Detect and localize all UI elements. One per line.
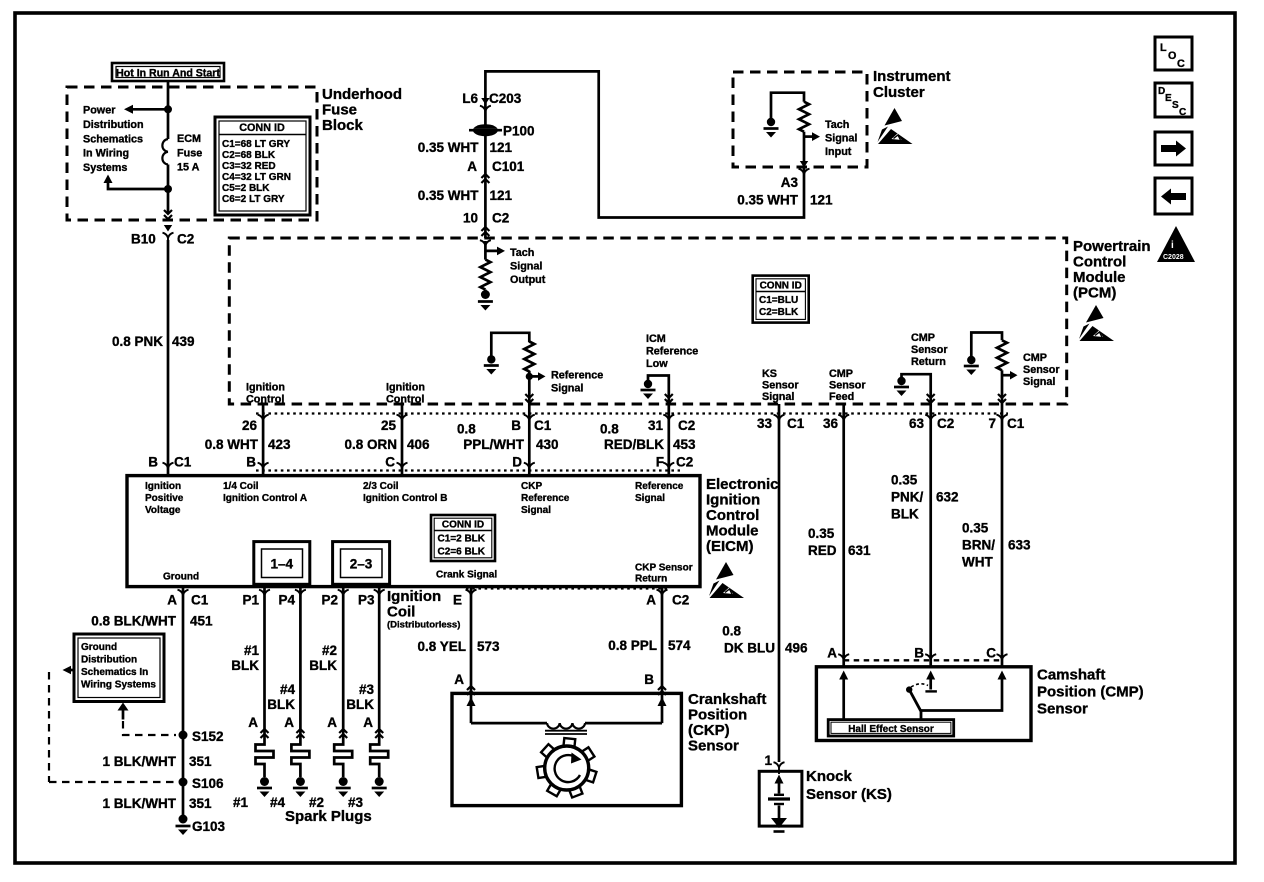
svg-text:WHT: WHT (962, 555, 993, 570)
label CKP Sensor Return (635, 563, 693, 585)
wire P3 to plug 3 (378, 587, 381, 742)
knock sensor element (768, 775, 790, 832)
label Reference Signal (551, 370, 603, 395)
connector fork at EICM pin B (163, 463, 174, 475)
svg-text:#2: #2 (322, 643, 337, 658)
label 0.35 WHT 121 lower (418, 188, 513, 203)
svg-text:CONN ID: CONN ID (239, 122, 285, 134)
arrow left of ground distribution box (63, 666, 76, 674)
label pin B C1 at EICM (148, 455, 191, 470)
svg-text:Ground: Ground (163, 572, 199, 583)
svg-text:CONN ID: CONN ID (442, 520, 484, 531)
label Power Distribution Schematics In Wiring Systems (83, 105, 144, 175)
svg-text:Ignition: Ignition (387, 588, 441, 605)
label ICM Reference Low (646, 333, 698, 370)
label CMP Sensor Signal (1023, 352, 1060, 388)
svg-text:(EICM): (EICM) (706, 538, 754, 555)
inline connector B10 C2 (163, 225, 174, 245)
svg-text:0.8 PPL: 0.8 PPL (608, 638, 657, 653)
svg-text:0.35: 0.35 (962, 521, 989, 536)
svg-text:Fuse: Fuse (177, 147, 202, 159)
svg-text:Reference: Reference (551, 370, 603, 382)
arrowheads into CKP box (467, 697, 476, 706)
label 0.35 RED 631 (808, 526, 871, 558)
ESD symbol cluster (878, 108, 913, 144)
Hot In Run And Start label box (112, 63, 224, 81)
svg-text:Tach: Tach (510, 247, 534, 259)
icon box left-arrow (1155, 178, 1192, 214)
svg-text:121: 121 (490, 188, 513, 203)
svg-text:453: 453 (673, 437, 696, 452)
svg-text:Reference: Reference (635, 481, 684, 492)
svg-text:632: 632 (936, 490, 959, 505)
svg-text:C1=BLU: C1=BLU (759, 295, 798, 306)
svg-text:Ignition: Ignition (706, 492, 760, 509)
svg-text:Return: Return (635, 574, 667, 585)
svg-text:Signal: Signal (762, 391, 794, 403)
dashed link to S106 (49, 672, 176, 782)
label Ignition Control right (386, 382, 425, 406)
tach signal input node arrow (804, 132, 820, 141)
svg-text:A: A (167, 593, 177, 608)
ESD symbol PCM (1079, 305, 1114, 341)
exit chevron CMP sensor signal (998, 394, 1006, 403)
wire 439 PNK vertical to EICM (167, 240, 170, 476)
coil 2-3 box (333, 542, 390, 585)
svg-text:Control: Control (246, 394, 284, 406)
svg-text:451: 451 (190, 614, 213, 629)
svg-text:Coil: Coil (387, 604, 415, 621)
svg-text:BLK: BLK (267, 697, 295, 712)
svg-text:Underhood: Underhood (322, 86, 402, 103)
label 0.8 BLK/WHT 451 (91, 614, 213, 629)
svg-text:F: F (656, 455, 664, 470)
svg-text:Module: Module (706, 523, 759, 540)
label Knock Sensor (KS) (806, 768, 892, 803)
svg-text:15 A: 15 A (177, 162, 200, 174)
wire 574 PPL CKP return (661, 587, 664, 724)
svg-text:BRN/: BRN/ (962, 538, 995, 553)
svg-text:C2: C2 (177, 232, 194, 247)
label 1 BLK/WHT 351 lower (103, 796, 213, 811)
svg-text:Block: Block (322, 117, 364, 134)
connector forks EICM row (258, 463, 269, 475)
ground CMP sensor signal (964, 356, 979, 375)
Instrument Cluster dashed box (733, 72, 867, 167)
svg-text:633: 633 (1008, 538, 1031, 553)
svg-text:0.8 WHT: 0.8 WHT (205, 437, 259, 452)
svg-text:Wiring Systems: Wiring Systems (81, 680, 156, 691)
svg-text:BLK: BLK (346, 697, 374, 712)
svg-text:Crankshaft: Crankshaft (688, 691, 766, 708)
svg-text:PNK/: PNK/ (891, 490, 924, 505)
spark plug 1 (256, 741, 274, 797)
svg-text:In Wiring: In Wiring (83, 148, 129, 160)
svg-text:1/4 Coil: 1/4 Coil (223, 481, 259, 492)
svg-text:351: 351 (189, 754, 212, 769)
svg-text:C5=2 BLK: C5=2 BLK (222, 183, 270, 194)
wire P4 to plug 4 (299, 587, 302, 742)
svg-text:Signal: Signal (510, 261, 542, 273)
spark plug 3 (370, 741, 388, 797)
svg-text:0.35 WHT: 0.35 WHT (737, 193, 799, 208)
svg-text:A: A (827, 646, 837, 661)
svg-text:CKP Sensor: CKP Sensor (635, 563, 693, 574)
svg-text:C203: C203 (489, 91, 522, 106)
svg-text:Ignition: Ignition (145, 481, 181, 492)
svg-text:L: L (1160, 42, 1167, 54)
svg-text:CMP: CMP (1023, 352, 1047, 364)
svg-text:#1: #1 (244, 643, 260, 658)
CMP internal wire B with switch (906, 671, 937, 720)
svg-text:B: B (148, 455, 158, 470)
svg-text:Control: Control (386, 394, 424, 406)
svg-text:CONN ID: CONN ID (760, 281, 802, 292)
wire 406 ORN pin25 to EICM (401, 404, 404, 476)
svg-text:C4=32 LT GRN: C4=32 LT GRN (222, 172, 291, 183)
label Powertrain Control Module (PCM) (1073, 238, 1151, 302)
Underhood Fuse Block dashed box (67, 87, 317, 220)
grommet P100 (469, 124, 502, 136)
svg-text:A: A (646, 593, 656, 608)
connector chevron into PCM (481, 227, 489, 236)
svg-text:A3: A3 (781, 175, 799, 190)
label 0.8 WHT 423 (205, 437, 291, 452)
svg-text:BLK: BLK (891, 507, 919, 522)
label 1 BLK/WHT 351 upper (103, 754, 213, 769)
svg-text:A: A (454, 672, 464, 687)
wire fuse feed vertical (167, 81, 170, 213)
svg-text:Low: Low (646, 358, 668, 370)
svg-text:423: 423 (268, 437, 291, 452)
CONN ID table EICM (431, 515, 495, 561)
svg-text:Sensor: Sensor (688, 738, 739, 755)
label B10 C2 (131, 232, 194, 247)
svg-text:7: 7 (988, 416, 996, 431)
label Camshaft Position (CMP) Sensor (1037, 667, 1144, 718)
label 0.35 WHT 121 cluster (737, 193, 833, 208)
svg-text:B: B (644, 672, 654, 687)
svg-text:P2: P2 (321, 593, 338, 608)
icon box DESC (1155, 83, 1192, 118)
svg-text:(Distributorless): (Distributorless) (387, 620, 460, 631)
svg-text:#4: #4 (280, 682, 296, 697)
svg-text:P100: P100 (503, 124, 535, 139)
icon box LOC (1155, 37, 1192, 70)
resistor tach output (480, 260, 490, 290)
connector forks PCM row (258, 415, 269, 427)
svg-text:0.8 BLK/WHT: 0.8 BLK/WHT (91, 614, 177, 629)
reference signal node arrow (526, 372, 546, 381)
wire P1 to plug 1 (263, 587, 266, 742)
svg-text:B: B (246, 455, 256, 470)
resistor CMP sensor signal (997, 340, 1007, 370)
svg-text:496: 496 (785, 641, 808, 656)
CONN ID table PCM (753, 276, 809, 323)
svg-text:Schematics In: Schematics In (81, 667, 148, 678)
svg-text:Ground: Ground (81, 642, 117, 653)
exit chevron ICM reference low (665, 394, 673, 403)
wire 496 DK BLU knock sensor (778, 404, 781, 762)
CMP internal wire A (839, 671, 848, 720)
wire resistor to A3 (803, 132, 806, 167)
svg-text:C6=2 LT GRY: C6=2 LT GRY (222, 194, 285, 205)
wire 451/351 BLKWHT ground run (182, 587, 185, 819)
label pin A C1 (167, 593, 208, 608)
svg-text:C1=2 BLK: C1=2 BLK (438, 534, 486, 545)
CMP sensor box (816, 667, 1031, 741)
svg-text:A: A (284, 715, 294, 730)
connector fork tach entering PCM (480, 240, 491, 252)
label #4 BLK (267, 682, 295, 712)
svg-text:C2028: C2028 (1163, 254, 1184, 261)
svg-text:Signal: Signal (551, 383, 583, 395)
ground tach output (478, 290, 493, 311)
svg-text:574: 574 (668, 638, 691, 653)
resistor reference signal (524, 342, 534, 372)
svg-text:Fuse: Fuse (322, 102, 357, 119)
svg-text:P1: P1 (242, 593, 259, 608)
label 0.8 RED/BLK 453 (600, 422, 696, 453)
wire cluster ground to resistor (771, 93, 804, 119)
wire 633 BRNWHT CMP signal (1001, 404, 1004, 666)
svg-text:C1: C1 (174, 455, 192, 470)
svg-text:Positive: Positive (145, 493, 184, 504)
PCM dashed box (229, 238, 1066, 404)
svg-text:C1=68 LT GRY: C1=68 LT GRY (222, 139, 290, 150)
splice S152 (179, 729, 224, 744)
svg-text:C2: C2 (672, 593, 689, 608)
CMP sensor signal node arrow (1002, 371, 1018, 380)
label 0.35 BRN/WHT 633 (962, 521, 1031, 570)
label L6 C203 (462, 91, 522, 106)
svg-text:C2=68 BLK: C2=68 BLK (222, 150, 276, 161)
label #3 BLK (346, 682, 374, 712)
svg-text:Control: Control (1073, 254, 1126, 271)
svg-text:i: i (1171, 240, 1174, 251)
svg-text:D: D (512, 455, 522, 470)
icon box right-arrow (1155, 132, 1192, 165)
svg-text:Sensor: Sensor (1023, 364, 1060, 376)
svg-text:C: C (1179, 107, 1186, 118)
label Electronic Ignition Control Module (EICM) (706, 476, 779, 555)
wire branch with up arrow (108, 183, 168, 189)
svg-text:Sensor: Sensor (1037, 701, 1088, 718)
svg-text:C1: C1 (191, 593, 209, 608)
svg-text:Spark Plugs: Spark Plugs (285, 808, 372, 825)
label 10 C2 (463, 211, 509, 226)
label Ignition Positive Voltage (145, 481, 184, 516)
svg-text:Power: Power (83, 105, 116, 117)
svg-text:L6: L6 (462, 91, 478, 106)
svg-text:Powertrain: Powertrain (1073, 238, 1151, 255)
svg-text:CMP: CMP (829, 368, 853, 380)
label 0.35 WHT 121 upper (418, 140, 513, 155)
svg-text:0.35 WHT: 0.35 WHT (418, 140, 480, 155)
dashed link to S152 (123, 721, 176, 735)
wire 631 RED CMP feed (842, 404, 845, 666)
spark plug 4 (291, 741, 309, 797)
label Crankshaft Position (CKP) Sensor (688, 691, 766, 755)
wire P2 to plug 2 (342, 587, 345, 742)
label KS Sensor Signal (762, 368, 799, 403)
svg-text:Signal: Signal (635, 493, 665, 504)
svg-text:Input: Input (825, 146, 852, 158)
svg-text:S106: S106 (192, 776, 224, 791)
label 0.8 PPL 574 (608, 638, 691, 653)
svg-text:B: B (511, 418, 521, 433)
svg-text:1 BLK/WHT: 1 BLK/WHT (103, 796, 177, 811)
label CMP Sensor Return (911, 332, 948, 368)
label 0.8 YEL 573 (417, 639, 500, 654)
svg-text:A: A (248, 715, 258, 730)
CMP connector forks (838, 654, 849, 666)
wire 423 WHT pin26 to EICM (262, 404, 265, 476)
inline connector L6 C203 (480, 98, 491, 118)
svg-text:0.8: 0.8 (600, 422, 619, 437)
label Tach Signal Output (510, 247, 546, 286)
svg-text:C2: C2 (678, 418, 695, 433)
label pin A C2 (646, 593, 689, 608)
svg-text:C2: C2 (492, 211, 509, 226)
junction node bottom (164, 185, 172, 193)
svg-text:Knock: Knock (806, 768, 853, 785)
svg-text:Sensor: Sensor (829, 380, 866, 392)
label A C101 (467, 159, 525, 174)
svg-text:Module: Module (1073, 269, 1126, 286)
PCM connector face dotted line (256, 412, 1008, 414)
label #2 BLK (309, 643, 337, 673)
svg-text:C2=BLK: C2=BLK (759, 307, 799, 318)
CMP internal wire C (921, 671, 1007, 711)
svg-text:C3=32 RED: C3=32 RED (222, 161, 276, 172)
ground CMP sensor return (894, 377, 909, 396)
label #1 BLK (231, 643, 259, 673)
svg-text:BLK: BLK (231, 658, 259, 673)
label 0.8 PNK 439 (112, 334, 195, 349)
wire CMP sensor signal (971, 333, 1002, 405)
label 0.8 DK BLU 496 (722, 624, 808, 656)
svg-text:Instrument: Instrument (873, 68, 951, 85)
svg-text:C: C (1177, 58, 1185, 70)
svg-text:C1: C1 (534, 418, 552, 433)
connector exit chevron at fuse block bottom (164, 210, 172, 219)
wire 573 YEL crank signal (470, 587, 473, 724)
svg-text:0.8 YEL: 0.8 YEL (417, 639, 466, 654)
svg-text:(PCM): (PCM) (1073, 285, 1116, 302)
EICM bottom dotted connector line (466, 587, 670, 589)
CONN ID table fuse block (215, 117, 310, 215)
svg-text:RED/BLK: RED/BLK (604, 437, 664, 452)
label Instrument Cluster (873, 68, 951, 101)
tach signal output node arrow (485, 241, 505, 260)
fuse ECM 15A (162, 139, 168, 165)
label 0.35 PNK/BLK 632 (891, 473, 959, 522)
label 0.8 ORN 406 (344, 437, 430, 452)
svg-text:Crank Signal: Crank Signal (436, 570, 497, 581)
svg-text:C1: C1 (787, 416, 805, 431)
svg-text:0.35 WHT: 0.35 WHT (418, 188, 480, 203)
Ground Distribution Schematics box (74, 634, 164, 702)
svg-text:430: 430 (536, 437, 559, 452)
svg-text:439: 439 (172, 334, 195, 349)
coil 1-4 box (254, 542, 310, 585)
svg-text:CMP: CMP (911, 332, 935, 344)
svg-text:RED: RED (808, 543, 837, 558)
ground G103 (176, 815, 226, 836)
svg-text:Signal: Signal (1023, 376, 1055, 388)
svg-text:C2=6 BLK: C2=6 BLK (438, 547, 486, 558)
svg-text:351: 351 (189, 796, 212, 811)
svg-text:Voltage: Voltage (145, 505, 181, 516)
svg-text:0.8 ORN: 0.8 ORN (344, 437, 397, 452)
junction node top (164, 105, 172, 113)
wire ICM reference low (648, 376, 669, 405)
svg-text:Reference: Reference (646, 346, 698, 358)
svg-text:DK BLU: DK BLU (724, 641, 775, 656)
CKP reluctor wheel (537, 738, 597, 797)
svg-text:PPL/WHT: PPL/WHT (463, 437, 524, 452)
svg-text:P4: P4 (278, 593, 295, 608)
svg-text:B: B (914, 646, 924, 661)
knock sensor box (759, 771, 802, 826)
resistor tach input pull-up (799, 102, 809, 132)
label pin 33 C1 (757, 416, 805, 431)
EICM module box (127, 476, 700, 587)
svg-text:E: E (453, 593, 462, 608)
svg-text:63: 63 (909, 416, 925, 431)
svg-text:1 BLK/WHT: 1 BLK/WHT (103, 754, 177, 769)
label Reference Signal EICM (635, 481, 684, 504)
svg-text:121: 121 (810, 193, 833, 208)
svg-text:CKP: CKP (521, 481, 542, 492)
svg-text:573: 573 (477, 639, 500, 654)
label Ignition Control left (246, 382, 285, 406)
svg-text:Ignition Control A: Ignition Control A (223, 493, 307, 504)
wire CMP sensor return (902, 374, 931, 404)
svg-text:631: 631 (848, 543, 871, 558)
svg-text:Output: Output (510, 274, 546, 286)
svg-text:KS: KS (762, 368, 777, 380)
svg-text:C: C (385, 455, 395, 470)
svg-text:Hall Effect Sensor: Hall Effect Sensor (848, 724, 934, 735)
svg-text:Signal: Signal (825, 133, 857, 145)
svg-text:Sensor (KS): Sensor (KS) (806, 786, 892, 803)
svg-text:C: C (986, 646, 996, 661)
svg-text:0.35: 0.35 (808, 526, 835, 541)
label ECM Fuse 15 A (177, 133, 202, 174)
label pin F C2 EICM (656, 455, 694, 470)
ground reference signal (484, 355, 499, 374)
EICM connector face dotted line (256, 469, 680, 471)
svg-text:Ignition Control B: Ignition Control B (363, 493, 447, 504)
svg-text:Control: Control (706, 507, 759, 524)
arrow below ground distribution box (118, 703, 129, 720)
label Tach Signal Input (825, 119, 857, 158)
svg-text:0.35: 0.35 (891, 473, 918, 488)
svg-text:31: 31 (648, 418, 664, 433)
label 0.8 PPL/WHT 430 (457, 422, 559, 453)
svg-text:0.8: 0.8 (722, 624, 741, 639)
svg-text:#4: #4 (270, 795, 286, 810)
svg-text:Tach: Tach (825, 119, 849, 131)
CMP connector dashed line (844, 659, 1002, 661)
svg-text:Schematics: Schematics (83, 133, 143, 145)
svg-text:0.8 PNK: 0.8 PNK (112, 334, 163, 349)
fork knock sensor pin (774, 762, 785, 774)
svg-text:O: O (1168, 50, 1176, 62)
splice S106 (179, 776, 225, 791)
